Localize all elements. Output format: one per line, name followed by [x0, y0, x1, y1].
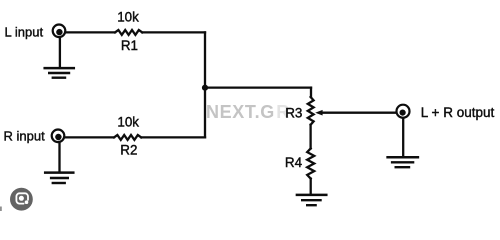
svg-text:R2: R2 — [120, 142, 137, 157]
resistor R1 — [115, 30, 142, 35]
svg-text:R3: R3 — [285, 106, 302, 121]
svg-text:NEXT.G: NEXT.G — [206, 102, 275, 122]
svg-text:L + R output: L + R output — [421, 105, 495, 120]
wiper arrow of R3 — [315, 110, 322, 116]
connector J2 R input — [52, 130, 65, 143]
wire corner down to R3 — [310, 88, 312, 97]
wire R4 to ground — [310, 179, 312, 194]
wire output to ground — [402, 118, 404, 156]
connector J1 L input — [53, 25, 66, 38]
node A junction dot — [202, 85, 208, 91]
ground (output) — [388, 157, 418, 167]
wire R input to R2 — [65, 136, 114, 138]
potentiometer R3 — [308, 97, 314, 125]
wire L input to R1 — [66, 31, 115, 33]
resistor R4 — [307, 148, 314, 178]
svg-text:R input: R input — [4, 129, 46, 144]
resistor R2 — [114, 135, 141, 140]
wire vertical bus x=205 — [204, 32, 206, 137]
svg-text:10k: 10k — [117, 115, 139, 130]
svg-text:R4: R4 — [285, 155, 303, 170]
svg-text:R1: R1 — [121, 38, 138, 53]
svg-text:L input: L input — [5, 24, 44, 39]
google lens camera icon — [10, 188, 33, 211]
svg-text:10k: 10k — [117, 10, 139, 25]
left edge smudge — [0, 207, 2, 212]
ground (R input) — [45, 143, 73, 183]
wire node A to R3 top corner — [205, 86, 311, 88]
wire R2 to vertical bus — [141, 136, 205, 138]
connector J3 L+R output — [397, 105, 410, 118]
ground (R4) — [297, 195, 326, 205]
wire R3 to R4 — [309, 125, 311, 149]
wire wiper to output — [322, 112, 396, 114]
ground (L input) — [45, 38, 74, 77]
watermark NEXT.GR — [206, 102, 289, 122]
wire R1 to top corner — [142, 31, 205, 33]
